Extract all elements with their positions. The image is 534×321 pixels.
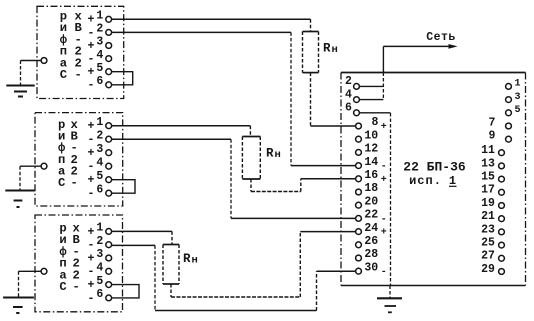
resistor R3 (Rн) <box>163 245 179 285</box>
pin 30 label <box>364 261 386 278</box>
sensor block 3 pin 3 terminal <box>106 255 112 261</box>
svg-text:15: 15 <box>481 171 495 184</box>
pin 28 label <box>364 248 378 261</box>
sensor block 1 pin 6 terminal <box>106 82 112 88</box>
sensor block 2 pin 4 terminal <box>106 163 112 169</box>
svg-text:3: 3 <box>96 36 103 49</box>
pin 6 terminal <box>354 110 360 116</box>
pin 15 terminal <box>499 176 505 182</box>
svg-text:2: 2 <box>96 235 103 248</box>
svg-text:23: 23 <box>481 223 495 236</box>
pin 11 terminal <box>499 150 505 156</box>
svg-text:-: - <box>88 188 95 201</box>
sensor block 3 pin 1 terminal <box>106 229 112 235</box>
pin 8 label <box>372 116 387 133</box>
sensor block 2 pin 6 terminal <box>106 190 112 196</box>
svg-text:3: 3 <box>96 248 103 261</box>
svg-text:1: 1 <box>96 10 103 23</box>
pin 4 terminal <box>354 97 360 103</box>
svg-text:24: 24 <box>364 222 378 235</box>
svg-text:Сеть: Сеть <box>426 31 456 44</box>
svg-text:9: 9 <box>489 130 496 143</box>
svg-text:18: 18 <box>364 182 378 195</box>
power supply unit 22 БП-36 outline <box>341 73 526 286</box>
pin 27 terminal <box>499 255 505 261</box>
svg-text:6: 6 <box>96 288 103 301</box>
svg-text:4: 4 <box>345 88 352 101</box>
svg-text:8: 8 <box>372 116 379 129</box>
sensor block 1 pin 3 terminal <box>106 43 112 49</box>
pin 28 terminal <box>356 255 362 261</box>
sensor block 3 pin -4 label <box>88 262 104 279</box>
svg-text:-: - <box>381 214 387 225</box>
wire: sensor1 pin+1 to R1 <box>112 19 311 31</box>
resistor R1 (Rн) <box>303 32 319 73</box>
pin 14 label <box>364 156 386 173</box>
pin 16 terminal <box>356 176 362 182</box>
svg-text:С: С <box>60 68 67 82</box>
sensor block 2 vertical label "Сапфир -22-Вх" <box>58 118 78 190</box>
pin 16 label <box>364 169 386 186</box>
svg-text:-: - <box>88 134 95 147</box>
resistor R2 (Rн) <box>242 137 260 180</box>
wire: jumper pins 5-6 of sensor block 2 <box>112 180 136 194</box>
svg-text:1: 1 <box>514 79 520 90</box>
svg-text:12: 12 <box>364 143 378 156</box>
pin 23 terminal <box>499 229 505 235</box>
svg-text:-: - <box>88 27 95 40</box>
sensor block 1 pin +3 label <box>88 36 104 53</box>
ground symbol for sensor block 3 <box>3 298 34 314</box>
sensor block 1 pin 4 terminal <box>106 56 112 62</box>
svg-text:-: - <box>71 176 78 190</box>
sensor block 2 pin +3 label <box>88 143 104 160</box>
sensor block 3 Сапфир-22-Вх outline <box>35 215 123 312</box>
svg-text:R: R <box>323 42 331 56</box>
svg-text:-: - <box>88 266 95 279</box>
svg-text:-: - <box>88 239 95 252</box>
sensor block 2 pin 5 terminal <box>106 177 112 183</box>
svg-text:-: - <box>381 267 387 278</box>
sensor block 2 pin +1 label <box>88 116 104 133</box>
wire to ground from sensor block 1 <box>21 61 42 85</box>
svg-text:R: R <box>266 147 274 161</box>
svg-text:11: 11 <box>481 144 495 157</box>
sensor block 2 pin 3 terminal <box>106 150 112 156</box>
svg-text:22 БП-36: 22 БП-36 <box>403 159 466 174</box>
svg-text:6: 6 <box>96 183 103 196</box>
svg-text:5: 5 <box>96 170 103 183</box>
inner dashed partition of 22 БП-36 <box>390 113 392 286</box>
svg-text:2: 2 <box>345 75 352 88</box>
sensor block 1 case terminal <box>41 58 47 64</box>
wire: earth rail below block <box>389 286 391 298</box>
pin 8 terminal <box>356 123 362 129</box>
svg-text:5: 5 <box>514 105 520 116</box>
svg-text:+: + <box>88 40 95 53</box>
pin 26 terminal <box>356 242 362 248</box>
svg-text:7: 7 <box>489 117 496 130</box>
svg-text:13: 13 <box>481 157 495 170</box>
svg-text:6: 6 <box>345 102 352 115</box>
sensor block 1 pin 2 terminal <box>106 30 112 36</box>
svg-text:+: + <box>88 66 95 79</box>
pin 10 terminal <box>356 136 362 142</box>
wire: pin 2 to mains riser <box>360 85 384 87</box>
svg-text:26: 26 <box>364 235 378 248</box>
wire to ground from sensor block 3 <box>19 271 42 296</box>
pin 20 label <box>364 195 378 208</box>
svg-text:3: 3 <box>514 92 520 103</box>
svg-text:+: + <box>88 226 95 239</box>
ground symbol for sensor block 1 <box>6 86 34 97</box>
svg-text:R: R <box>183 252 191 266</box>
pin 9 terminal <box>506 136 512 142</box>
sensor block 2 pin -2 label <box>88 129 104 146</box>
wire: mains riser (Сеть) <box>382 46 384 99</box>
pin 18 terminal <box>356 189 362 195</box>
pin 26 label <box>364 235 378 248</box>
svg-text:4: 4 <box>96 262 103 275</box>
svg-text:19: 19 <box>481 197 495 210</box>
wire: sensor3 pin+1 to R3 <box>112 231 173 244</box>
sensor block 3 pin 4 terminal <box>106 268 112 274</box>
wire: R1 to pin 8 <box>311 73 356 126</box>
wire to ground from sensor block 2 <box>20 166 41 189</box>
svg-text:н: н <box>275 149 281 161</box>
sensor block 2 pin +5 label <box>88 170 104 187</box>
svg-text:1: 1 <box>96 116 103 129</box>
sensor block 2 pin 1 terminal <box>106 123 112 129</box>
wire: R2 to pin 16 <box>251 179 356 192</box>
ground symbol of 22 БП-36 <box>377 298 402 312</box>
svg-text:-: - <box>88 79 95 92</box>
pin 10 label <box>364 129 378 142</box>
sensor block 3 vertical label "Сапфир -22-Вх" <box>59 222 80 295</box>
svg-text:21: 21 <box>481 210 495 223</box>
pin 29 terminal <box>499 269 505 275</box>
wire: pin 4 to mains riser <box>360 99 384 101</box>
label Rн of R3 <box>183 252 198 267</box>
sensor block 3 case terminal <box>41 268 47 274</box>
label Rн of R2 <box>266 147 281 162</box>
pin 30 terminal <box>356 268 362 274</box>
svg-text:5: 5 <box>96 275 103 288</box>
pin 14 terminal <box>356 163 362 169</box>
svg-text:22: 22 <box>364 209 378 222</box>
svg-text:17: 17 <box>481 184 495 197</box>
sensor block 3 pin +3 label <box>88 248 104 265</box>
pin 22 terminal <box>356 216 362 222</box>
svg-text:+: + <box>381 228 387 239</box>
sensor block 3 pin 2 terminal <box>106 242 112 248</box>
sensor block 1 Сапфир-22-Вх outline <box>37 6 124 98</box>
sensor block 1 pin -6 label <box>88 75 104 92</box>
sensor block 3 pin 5 terminal <box>106 282 112 288</box>
label Rн of R1 <box>323 42 338 57</box>
svg-text:1: 1 <box>96 222 103 235</box>
ground symbol for sensor block 2 <box>5 191 34 208</box>
pin 1 terminal <box>506 84 512 90</box>
svg-text:10: 10 <box>364 129 378 142</box>
svg-text:28: 28 <box>364 248 378 261</box>
svg-text:16: 16 <box>364 169 378 182</box>
pin 22 label <box>364 209 386 226</box>
svg-text:н: н <box>332 44 338 56</box>
svg-text:3: 3 <box>96 143 103 156</box>
svg-text:+: + <box>88 147 95 160</box>
pin 17 terminal <box>499 189 505 195</box>
svg-text:исп.: исп. <box>409 174 442 188</box>
svg-text:4: 4 <box>96 156 103 169</box>
svg-text:-: - <box>88 292 95 305</box>
sensor block 3 pin +5 label <box>88 275 104 292</box>
svg-text:н: н <box>192 255 198 267</box>
svg-text:5: 5 <box>96 62 103 75</box>
sensor block 1 pin -2 label <box>88 23 104 40</box>
svg-text:6: 6 <box>96 75 103 88</box>
svg-text:29: 29 <box>481 263 495 276</box>
sensor block 3 pin -2 label <box>88 235 104 252</box>
sensor block 1 pin 1 terminal <box>106 16 112 22</box>
pin 12 label <box>364 143 378 156</box>
svg-text:20: 20 <box>364 195 378 208</box>
svg-text:27: 27 <box>481 250 495 263</box>
svg-text:25: 25 <box>481 237 495 250</box>
sensor block 1 pin +1 label <box>88 10 104 27</box>
wire: pin 6 to earth rail <box>360 112 391 114</box>
pin 18 label <box>364 182 378 195</box>
svg-text:2: 2 <box>96 129 103 142</box>
svg-text:-: - <box>73 280 80 294</box>
sensor block 2 Сапфир-22-Вх outline <box>35 113 123 206</box>
pin 2 terminal <box>354 84 360 90</box>
sensor block 1 pin 5 terminal <box>106 69 112 75</box>
svg-text:+: + <box>88 279 95 292</box>
sensor block 3 pin +1 label <box>88 222 104 239</box>
pin 19 terminal <box>499 203 505 209</box>
pin 21 terminal <box>499 216 505 222</box>
sensor block 1 pin -4 label <box>88 49 104 66</box>
svg-text:С: С <box>58 176 65 190</box>
pin 25 terminal <box>499 242 505 248</box>
Сеть arrow <box>383 44 457 49</box>
svg-text:+: + <box>88 252 95 265</box>
sensor block 3 pin -6 label <box>88 288 104 305</box>
pin 24 terminal <box>356 229 362 235</box>
svg-text:-: - <box>88 53 95 66</box>
svg-text:+: + <box>88 14 95 27</box>
sensor block 2 pin 2 terminal <box>106 136 112 142</box>
svg-text:14: 14 <box>364 156 378 169</box>
sensor block 2 pin -4 label <box>88 156 104 173</box>
sensor block 2 case terminal <box>41 163 47 169</box>
pin 12 terminal <box>356 150 362 156</box>
wire: sensor2 pin-2 to pin 22 <box>112 139 356 218</box>
pin 20 terminal <box>356 202 362 208</box>
svg-text:-: - <box>381 162 387 173</box>
svg-text:С: С <box>59 280 66 294</box>
svg-text:+: + <box>88 174 95 187</box>
svg-text:2: 2 <box>96 23 103 36</box>
svg-text:30: 30 <box>364 261 378 274</box>
svg-text:-: - <box>88 161 95 174</box>
pin 7 terminal <box>506 123 512 129</box>
sensor block 2 pin -6 label <box>88 183 104 200</box>
svg-text:4: 4 <box>96 49 103 62</box>
pin 13 terminal <box>499 163 505 169</box>
svg-text:+: + <box>88 120 95 133</box>
sensor block 1 pin +5 label <box>88 62 104 79</box>
label исп. 1 <box>409 174 456 188</box>
svg-text:-: - <box>75 68 82 82</box>
wire: jumper pins 5-6 of sensor block 1 <box>112 72 133 85</box>
wire: sensor2 pin+1 to R2 <box>112 126 251 137</box>
sensor block 1 vertical label "Сапфир -22-Вх" <box>60 9 83 82</box>
wire: sensor1 pin-2 to pin 14 <box>112 32 356 165</box>
pin 3 terminal <box>506 97 512 103</box>
wire: jumper pins 5-6 of sensor block 3 <box>112 285 140 298</box>
wire: sensor3 pin-2 to pin 30 <box>112 245 356 310</box>
pin 5 terminal <box>506 110 512 116</box>
pin 24 label <box>364 222 386 239</box>
svg-text:+: + <box>381 122 387 133</box>
svg-text:+: + <box>381 175 387 186</box>
wire: R3 to pin 24 <box>171 232 356 297</box>
sensor block 3 pin 6 terminal <box>106 295 112 301</box>
